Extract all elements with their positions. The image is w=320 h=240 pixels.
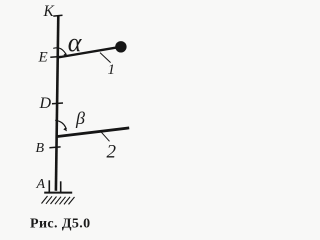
ground line: [44, 192, 72, 194]
ground support: right post: [60, 181, 62, 192]
angle alpha arc: [53, 48, 66, 55]
node E tick: [50, 56, 60, 59]
leader line for label 1: [100, 53, 111, 63]
angle beta arc: [55, 120, 66, 129]
svg-text:D: D: [39, 95, 52, 112]
node D tick: [52, 102, 63, 105]
node K tick: [53, 14, 62, 17]
ball at end of rod 1: [115, 41, 126, 52]
svg-text:K: K: [43, 3, 55, 20]
wire: vertical rod K-A: [56, 15, 58, 191]
svg-text:1: 1: [108, 62, 116, 78]
ground support: left post: [48, 180, 50, 192]
svg-text:E: E: [38, 49, 48, 65]
ground hatching: [42, 196, 75, 204]
leader line for label 2: [100, 131, 109, 141]
svg-text:B: B: [36, 141, 45, 156]
svg-text:α: α: [68, 28, 83, 57]
svg-text:A: A: [36, 177, 46, 192]
rod 1: [58, 48, 117, 58]
node B tick: [49, 146, 60, 149]
svg-text:Рис. Д5.0: Рис. Д5.0: [30, 217, 91, 232]
rod 2: [56, 128, 129, 137]
svg-text:2: 2: [107, 142, 117, 163]
svg-text:β: β: [75, 108, 85, 128]
